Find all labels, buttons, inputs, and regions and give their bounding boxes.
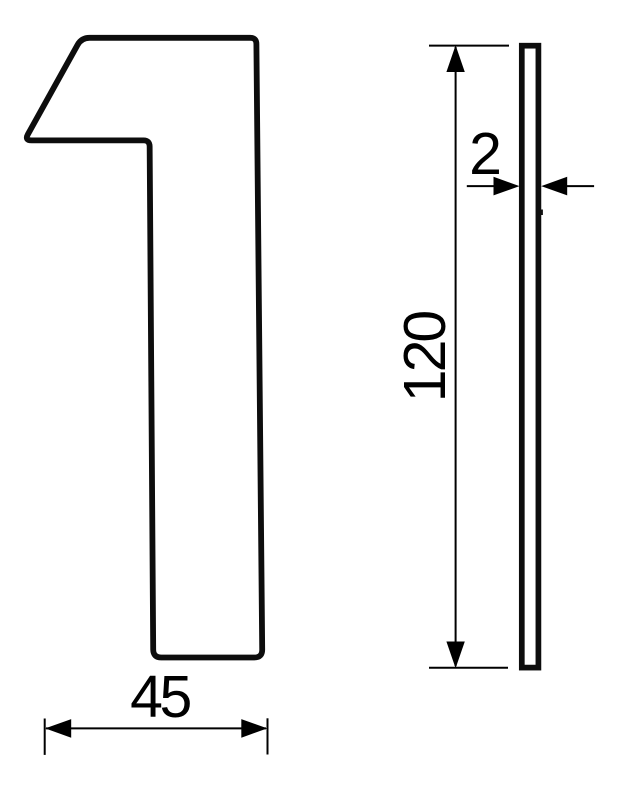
numeral 1 outline (front view) — [27, 38, 262, 658]
dim 120: bottom arrowhead — [446, 642, 464, 669]
dim 120: top extension line — [429, 45, 509, 47]
plate edge nub — [541, 210, 543, 216]
dim 120: vertical dimension line — [455, 47, 457, 666]
dim 2: right tail line — [567, 185, 594, 187]
dim 120: bottom extension line — [429, 667, 508, 669]
dim 2: left arrowhead — [494, 177, 520, 196]
dim 2: right arrowhead — [541, 177, 567, 196]
dim 2: left tail line — [467, 185, 494, 187]
dim 45: left extension line — [44, 719, 46, 755]
svg-text:2: 2 — [469, 121, 502, 187]
svg-text:45: 45 — [130, 664, 190, 730]
dim 45: right extension line — [267, 718, 269, 754]
dim 45: horizontal dimension line — [46, 727, 266, 729]
dim 45: left arrowhead — [45, 719, 71, 738]
svg-text:120: 120 — [392, 312, 458, 403]
dim 120: top arrowhead — [446, 45, 464, 72]
dim 45: right arrowhead — [241, 719, 267, 738]
side view plate (thin rectangle) — [522, 46, 539, 668]
